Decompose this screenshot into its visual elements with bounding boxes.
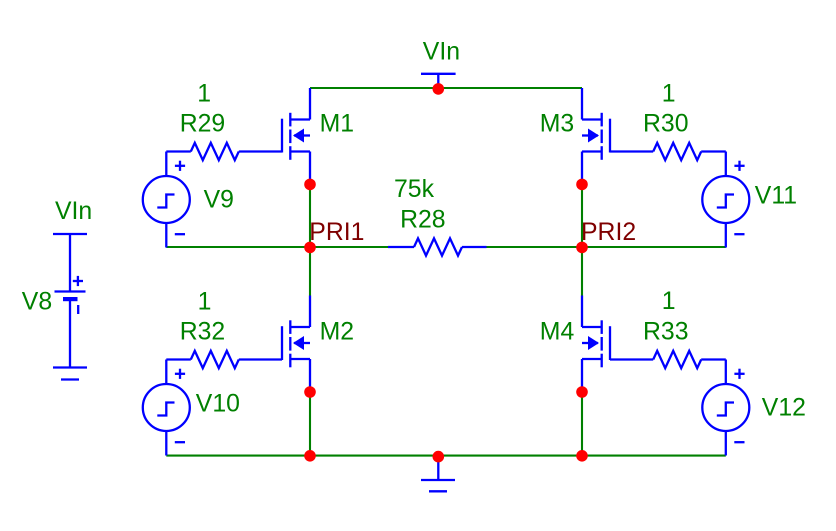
svg-text:M2: M2: [320, 319, 354, 346]
svg-text:M4: M4: [540, 319, 575, 346]
svg-text:75k: 75k: [394, 176, 435, 203]
svg-text:PRI2: PRI2: [581, 219, 636, 246]
svg-text:VIn: VIn: [423, 38, 460, 65]
svg-text:R33: R33: [643, 318, 689, 345]
svg-text:1: 1: [662, 288, 676, 315]
svg-text:R29: R29: [180, 111, 226, 138]
svg-text:V9: V9: [204, 186, 234, 213]
svg-text:VIn: VIn: [55, 198, 92, 225]
svg-text:1: 1: [662, 80, 676, 107]
svg-text:V8: V8: [22, 289, 52, 316]
svg-text:1: 1: [197, 80, 211, 107]
svg-text:V11: V11: [755, 183, 797, 210]
svg-text:R32: R32: [180, 318, 226, 345]
svg-text:R30: R30: [643, 111, 689, 138]
svg-text:PRI1: PRI1: [309, 219, 364, 246]
svg-text:1: 1: [198, 289, 212, 316]
svg-text:V10: V10: [196, 391, 240, 418]
svg-text:V12: V12: [762, 394, 806, 421]
svg-text:M3: M3: [540, 110, 574, 137]
svg-text:R28: R28: [400, 207, 446, 234]
svg-text:M1: M1: [320, 111, 354, 138]
